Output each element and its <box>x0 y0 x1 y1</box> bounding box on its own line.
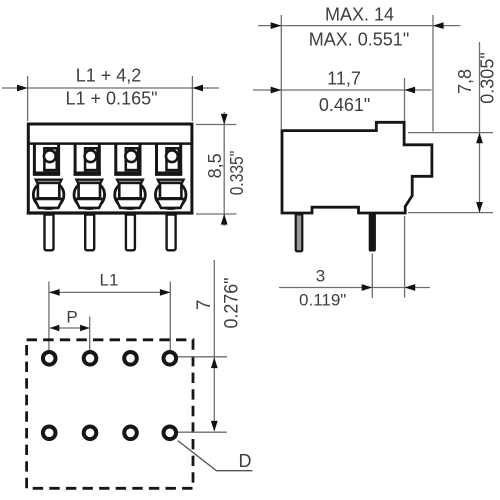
front view: height dim bottom extension line <box>196 213 237 215</box>
footprint: hole row 1 #1 <box>43 352 56 365</box>
footprint: hole row 1 #3 <box>124 352 137 365</box>
footprint: P left arrow <box>50 325 60 331</box>
pole 1: recess right wall <box>57 144 60 176</box>
pole 4: screw slot notch <box>168 164 177 169</box>
side view: 7,8 bottom arrow <box>476 202 483 213</box>
pole 4: screw head circle <box>166 150 178 162</box>
side view: front solder pin <box>296 214 303 251</box>
side view: max width left extension line <box>280 15 282 129</box>
footprint: hole row 1 #4 <box>164 352 177 365</box>
pole 2: recess left wall <box>74 144 77 176</box>
pole 3: clamp skirt <box>116 199 144 208</box>
svg-text:11,7: 11,7 <box>327 68 361 88</box>
footprint: hole row 2 #2 <box>84 427 97 440</box>
front view: height dim bottom arrow <box>221 214 228 225</box>
pole 4: clamp neck <box>158 180 184 183</box>
footprint: row pitch dimension line 7 <box>213 260 215 431</box>
pole 3: recess floor <box>114 171 141 175</box>
pole 2: recess right wall <box>98 144 101 176</box>
front view: width dim right arrow <box>192 85 203 92</box>
svg-text:0.461": 0.461" <box>319 95 370 115</box>
svg-text:L1 + 0.165": L1 + 0.165" <box>66 89 158 109</box>
footprint: hole row 2 #1 <box>43 427 56 440</box>
svg-text:0.335": 0.335" <box>227 151 247 196</box>
pole 3: clamp window <box>119 183 140 198</box>
pole 1: recess floor <box>33 171 60 175</box>
pole 2: clamp neck <box>76 180 102 183</box>
svg-text:P: P <box>66 308 77 327</box>
svg-text:D: D <box>239 451 252 471</box>
pole 4: clamp skirt <box>157 199 185 208</box>
side view: 11,7 right extension line <box>404 78 406 121</box>
front view: body top bar lower edge <box>27 142 193 145</box>
pole 4: solder pin <box>167 215 176 251</box>
pole 4: screw box <box>167 148 179 170</box>
front view: width dim left arrow <box>17 85 28 92</box>
side view: pin pitch extension line from rear pin <box>371 254 373 299</box>
side view: max width dimension line <box>258 25 461 27</box>
footprint: L1 right arrow <box>160 289 171 296</box>
footprint: row1 extension line <box>178 356 227 358</box>
svg-text:MAX. 14: MAX. 14 <box>325 4 394 24</box>
pole 4: clamp barrel circle <box>155 181 186 209</box>
pole 1: solder pin <box>45 215 54 251</box>
front view: width dimension line <box>2 87 219 89</box>
pole 3: screw head circle <box>125 150 137 162</box>
side view: 7,8 dim top extension line <box>408 132 493 134</box>
pole 3: recess right wall <box>139 144 142 176</box>
footprint: P dimension line <box>50 327 90 329</box>
pole 4: clamp window <box>160 183 181 198</box>
side view: rear solder pin <box>369 214 375 251</box>
svg-text:0.119": 0.119" <box>299 291 346 310</box>
footprint: 7 dim top arrow <box>211 358 218 369</box>
side view: 3 dim left arrow <box>362 284 373 291</box>
svg-text:MAX. 0.551": MAX. 0.551" <box>309 29 409 49</box>
svg-text:7: 7 <box>194 300 215 311</box>
pole 2: recess floor <box>74 171 101 175</box>
footprint: hole1 extension line <box>48 282 50 351</box>
side view: 11,7 right arrow <box>405 87 416 94</box>
pole 3: clamp neck <box>117 180 143 183</box>
side view: housing body outline <box>282 122 432 213</box>
footprint: hole row 1 #2 <box>84 352 97 365</box>
footprint: hole row 2 #3 <box>124 427 137 440</box>
svg-text:8,5: 8,5 <box>205 153 225 178</box>
footprint: hole row 2 #4 <box>164 427 177 440</box>
side view: 11,7 dimension line <box>253 89 432 91</box>
front view: right extension line <box>191 76 193 121</box>
footprint: hole4 extension line <box>169 282 171 351</box>
pole 4: recess right wall <box>179 144 182 176</box>
side view: max width right extension line <box>432 15 434 132</box>
pole 4: recess floor <box>155 171 182 175</box>
footprint: L1 dimension line <box>49 291 171 293</box>
footprint: board outline dashed rectangle <box>27 340 193 489</box>
svg-text:0.276": 0.276" <box>222 278 243 329</box>
pole 4: recess left wall <box>155 144 158 176</box>
front view: height dimension line 8,5 <box>223 112 225 226</box>
side view: pitch extension from body right edge <box>404 216 406 298</box>
pole 1: clamp skirt <box>34 199 62 208</box>
pole 1: clamp window <box>38 183 59 198</box>
front view: body bottom edge <box>27 211 194 214</box>
pole 3: solder pin <box>126 215 135 251</box>
front view: left extension line <box>27 76 29 121</box>
svg-text:3: 3 <box>316 267 325 286</box>
pole 1: recess left wall <box>33 144 36 176</box>
pole 2: screw head circle <box>85 150 97 162</box>
side view: 3 dim right arrow <box>405 284 416 291</box>
svg-text:L1 + 4,2: L1 + 4,2 <box>76 66 142 86</box>
footprint: row2 extension line <box>178 431 227 433</box>
pole 2: clamp window <box>79 183 100 198</box>
footprint: L1 left arrow <box>49 289 60 296</box>
pole 1: screw slot notch <box>46 164 55 169</box>
side view: 7,8 dimension line <box>479 42 481 213</box>
front view: height dim top extension line <box>196 124 237 126</box>
footprint: P right arrow <box>80 325 90 331</box>
pole 3: screw slot notch <box>127 164 136 169</box>
pole 1: screw head circle <box>44 150 56 162</box>
svg-text:7,8: 7,8 <box>455 69 475 94</box>
pole 1: clamp neck <box>36 180 62 183</box>
svg-text:0.305": 0.305" <box>478 52 498 103</box>
pole 2: screw box <box>85 148 97 170</box>
side view: 11,7 left arrow <box>271 87 282 94</box>
side view: 7,8 dim bottom extension line <box>408 212 493 214</box>
pole 1: screw box <box>44 148 56 170</box>
footprint: hole D leader line <box>178 441 253 471</box>
front view: terminal block body outline <box>28 124 192 213</box>
pole 3: recess left wall <box>114 144 117 176</box>
svg-text:L1: L1 <box>100 271 119 290</box>
pole 3: clamp barrel circle <box>115 181 146 209</box>
side view: 7,8 top arrow <box>476 133 483 144</box>
footprint: 7 dim bottom arrow <box>211 421 218 432</box>
pole 2: clamp skirt <box>75 199 103 208</box>
side view: max width right arrow <box>433 22 444 29</box>
pole 2: screw slot notch <box>86 164 95 169</box>
side view: max width left arrow <box>271 22 282 29</box>
pole 2: solder pin <box>85 215 94 251</box>
pole 1: clamp barrel circle <box>33 181 64 209</box>
side view: 3 dimension line <box>279 287 430 289</box>
footprint: hole2 extension line <box>89 317 91 351</box>
front view: height dim top arrow <box>221 114 228 125</box>
pole 3: screw box <box>126 148 138 170</box>
pole 2: clamp barrel circle <box>74 181 105 209</box>
